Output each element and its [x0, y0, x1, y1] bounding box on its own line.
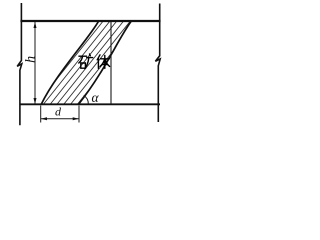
svg-text:d: d — [55, 105, 62, 119]
svg-text:α: α — [92, 90, 100, 105]
hatching of ore vein — [0, 21, 144, 104]
top surface line — [20, 20, 160, 22]
label kuang (ore) character — [79, 54, 93, 69]
left vertical line with break — [17, 3, 22, 125]
right vertical line with break — [155, 4, 160, 123]
angle arc — [84, 95, 89, 104]
middle vertical line — [110, 22, 112, 104]
h top arrow — [34, 22, 37, 28]
d right arrow — [73, 117, 79, 120]
d extension line left — [40, 106, 42, 123]
d dimension line — [41, 118, 79, 120]
d left arrow — [41, 117, 47, 120]
bottom level line — [20, 103, 160, 105]
d extension line right — [78, 106, 80, 123]
svg-text:h: h — [24, 56, 39, 63]
ore vein left edge — [41, 21, 98, 104]
h bottom arrow — [34, 98, 37, 104]
h dimension line — [34, 22, 36, 104]
ore vein right edge — [79, 21, 131, 104]
label ti (body) character — [97, 55, 109, 69]
